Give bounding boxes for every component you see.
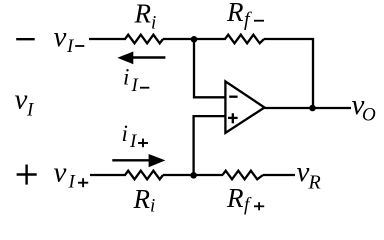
output wire: [265, 107, 352, 109]
op-amp U1: [225, 81, 264, 132]
label vO: [352, 89, 377, 126]
resistor Rf-: [225, 35, 264, 44]
node B (bottom junction): [190, 172, 197, 179]
svg-text:R: R: [226, 183, 244, 213]
svg-text:i: i: [122, 121, 128, 146]
resistor Rf+: [223, 171, 264, 180]
label vI+: [54, 157, 89, 193]
label iI+: [122, 121, 149, 152]
svg-text:i: i: [123, 65, 129, 90]
svg-text:R: R: [134, 0, 152, 29]
wire input bottom: [90, 174, 126, 176]
label Rf-: [226, 0, 264, 31]
svg-text:i: i: [150, 196, 155, 217]
current arrow iI- (pointing left): [117, 52, 165, 65]
label vR: [297, 156, 321, 194]
label Rf+: [226, 183, 264, 216]
current arrow iI+ (pointing right): [112, 154, 165, 167]
polarity minus sign (left top): [16, 38, 35, 40]
svg-text:v: v: [54, 21, 67, 53]
wire from node B up to non-inverting input: [194, 116, 226, 175]
polarity plus sign (left bottom): [17, 165, 37, 185]
svg-text:i: i: [151, 12, 156, 33]
wire to vR: [263, 174, 295, 176]
label vI-: [54, 21, 85, 57]
node A (top junction): [191, 36, 198, 43]
svg-text:R: R: [133, 184, 151, 214]
svg-text:R: R: [226, 0, 244, 27]
wire input top: [89, 38, 126, 40]
node C (output junction): [309, 105, 316, 112]
resistor Ri (bottom): [125, 171, 163, 180]
wire top right with corner down to output node: [264, 39, 313, 108]
svg-text:v: v: [15, 84, 28, 116]
wire bottom middle: [163, 174, 223, 176]
resistor Ri (top): [125, 35, 163, 44]
label iI-: [123, 65, 149, 97]
label Ri (bottom): [133, 184, 156, 217]
svg-text:R: R: [308, 172, 321, 194]
svg-text:v: v: [54, 157, 67, 189]
label Ri (top): [134, 0, 157, 33]
wire top middle: [163, 38, 226, 40]
svg-text:O: O: [362, 105, 376, 126]
label vI (input voltage): [15, 84, 36, 121]
wire from node A down to inverting input: [194, 39, 226, 97]
